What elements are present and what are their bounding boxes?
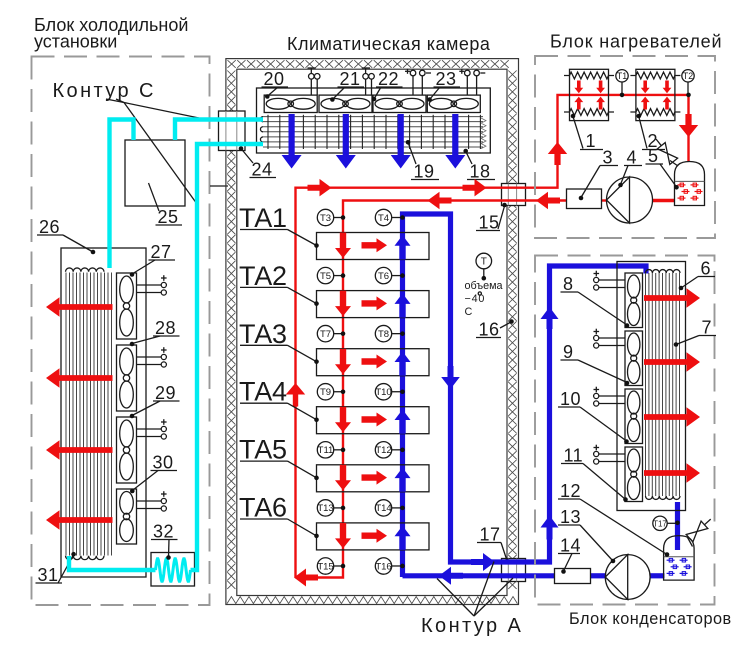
flow arrow right (blue to condenser) — [471, 553, 495, 571]
fan 23 (air handler fan section) — [427, 95, 480, 112]
fan 28 (evaporator fan) — [117, 345, 137, 411]
svg-text:16: 16 — [479, 320, 500, 340]
blue pipes of Contour A — [403, 214, 678, 577]
cold air-flow arrow (air handler outlet) — [282, 114, 302, 169]
terminals of fan group B — [362, 68, 375, 95]
flow arrow left (chamber bottom red) — [294, 569, 318, 587]
air-flow arrow (evaporator outlet) — [46, 368, 113, 388]
svg-text:Контур С: Контур С — [53, 80, 156, 102]
wire: tick between blocks — [210, 185, 228, 187]
svg-text:10: 10 — [560, 389, 581, 409]
label 16 — [476, 322, 512, 338]
label 17 — [477, 543, 507, 561]
label 3 — [581, 166, 618, 198]
pump 13 — [605, 555, 650, 600]
label 25 — [149, 183, 183, 225]
thermal block ТА3 box — [317, 349, 430, 376]
svg-text:25: 25 — [158, 207, 179, 227]
label 24 — [241, 149, 276, 178]
dashed enclosure: refrigeration unit block — [32, 57, 210, 606]
label 21 — [332, 87, 364, 100]
svg-text:Т: Т — [481, 257, 487, 268]
svg-text:Т1: Т1 — [617, 71, 627, 81]
svg-text:27: 27 — [151, 242, 172, 262]
arrow right in ТА5 — [362, 471, 388, 485]
label 18 — [466, 151, 495, 179]
expansion tank 5 — [675, 162, 705, 206]
svg-text:Т7: Т7 — [320, 329, 331, 340]
sensor Т4 — [375, 209, 391, 225]
svg-text:21: 21 — [340, 69, 361, 89]
arrow right in ТА3 — [362, 355, 388, 369]
svg-text:20: 20 — [264, 69, 285, 89]
svg-text:29: 29 — [155, 383, 176, 403]
label 2 — [639, 117, 665, 150]
label 14 — [558, 554, 580, 572]
sensor Т8 — [375, 325, 391, 341]
heat-exchange coil box 32 — [151, 553, 195, 587]
red pipes of heating circuit — [296, 95, 689, 578]
svg-text:Т17: Т17 — [653, 520, 667, 529]
svg-text:С: С — [465, 306, 473, 318]
label 32 — [151, 540, 178, 558]
label 11 — [561, 464, 625, 500]
terminals of fan 9 — [594, 329, 626, 348]
cold air-flow arrow (air handler outlet) — [391, 114, 411, 169]
svg-text:Т14: Т14 — [375, 503, 391, 514]
evaporator 26 fin pack — [66, 273, 112, 556]
arrow right in ТА2 — [362, 296, 388, 310]
label 7 — [676, 336, 716, 345]
flow arrow up (heater riser) — [548, 142, 567, 165]
terminals of fan 28 — [137, 347, 167, 367]
svg-text:19: 19 — [414, 162, 435, 182]
safety valve (tank 5) — [657, 143, 677, 165]
label 8 — [561, 292, 628, 325]
arrow up in ТА6 — [395, 526, 411, 550]
air-flow arrow (condenser outlet) — [644, 463, 700, 483]
flow arrow up (condenser riser 2) — [541, 516, 559, 540]
label 31 — [36, 555, 74, 584]
sensor Т15 — [317, 558, 333, 574]
svg-text:Т15: Т15 — [317, 561, 333, 572]
chamber left wall hatch — [227, 71, 235, 589]
evaporator coil top loops — [66, 268, 104, 272]
flow arrow down (outer blue drop) — [441, 366, 460, 389]
svg-text:22: 22 — [378, 69, 399, 89]
volume temperature sensor — [476, 253, 492, 269]
svg-text:17: 17 — [480, 525, 501, 545]
arrow right in ТА4 — [362, 413, 388, 427]
filter 14 — [555, 569, 591, 584]
sensor Т7 — [317, 325, 333, 341]
fan 30 (evaporator fan) — [117, 489, 137, 544]
sensor Т17 — [653, 516, 667, 530]
label 23 — [430, 87, 460, 100]
arrow down in ТА5 — [335, 465, 351, 491]
fan 10 (condenser fan) — [625, 389, 643, 444]
sensor Т11 — [317, 442, 333, 458]
svg-text:объема: объема — [465, 280, 503, 292]
heat-flow arrows of heater 2 — [641, 81, 650, 94]
svg-text:ТА1: ТА1 — [239, 203, 287, 233]
svg-text:9: 9 — [563, 342, 574, 362]
climatic chamber wall outline — [226, 59, 519, 605]
safety valve link (tank 5) — [670, 161, 678, 167]
svg-text:3: 3 — [603, 148, 614, 168]
heat-flow arrows of heater 1 — [574, 81, 583, 94]
dashed enclosure: condenser block — [535, 256, 715, 605]
coil 19 right-edge fin ends — [481, 118, 486, 149]
condenser coil top loops — [646, 270, 681, 273]
fan 27 (evaporator fan) — [117, 273, 137, 339]
evaporator coil bottom loops — [66, 556, 104, 560]
coil 32 winding (cyan) — [156, 559, 191, 582]
fan 20 (air handler fan section) — [264, 95, 317, 112]
svg-text:Т9: Т9 — [320, 387, 331, 398]
air-flow arrow (condenser outlet) — [644, 352, 700, 372]
svg-text:14: 14 — [560, 536, 581, 556]
air handler housing 18 — [257, 88, 491, 153]
svg-text:ТА2: ТА2 — [239, 261, 287, 291]
condenser coil bottom loops — [646, 496, 681, 499]
svg-text:Контур А: Контур А — [421, 615, 523, 637]
svg-text:Т11: Т11 — [318, 445, 334, 456]
svg-text:Климатическая камера: Климатическая камера — [287, 34, 491, 54]
arrow up in ТА5 — [395, 468, 411, 492]
svg-text:ТА5: ТА5 — [239, 435, 287, 465]
label 5 — [646, 164, 677, 187]
svg-text:Т12: Т12 — [375, 445, 391, 456]
label 26 — [37, 235, 93, 252]
condenser fin pack — [646, 273, 680, 496]
sensor Т13 — [317, 500, 333, 516]
svg-text:Т5: Т5 — [320, 271, 331, 282]
arrow up in ТА2 — [395, 293, 411, 317]
pump 4 — [607, 177, 653, 223]
label 4 — [621, 166, 643, 185]
arrow down in ТА4 — [335, 407, 351, 433]
svg-text:23: 23 — [436, 69, 457, 89]
svg-text:ТА6: ТА6 — [239, 493, 287, 523]
chamber bottom wall hatch — [227, 597, 517, 604]
label 22 — [374, 87, 403, 99]
dashed enclosure: heater block — [535, 56, 715, 238]
sensor Т16 — [375, 558, 391, 574]
terminals of fan group D — [459, 69, 485, 95]
svg-text:Т2: Т2 — [683, 71, 693, 81]
compressor unit 25 — [125, 140, 185, 206]
cold air-flow arrow (air handler outlet) — [336, 114, 356, 169]
label 29 — [132, 401, 180, 416]
svg-text:Т10: Т10 — [375, 387, 391, 398]
label 1 — [573, 117, 603, 150]
label 12 — [558, 499, 667, 555]
flow arrow left (blue supply into chamber) — [439, 567, 463, 585]
flow arrow up (condenser riser 1) — [541, 307, 559, 329]
chamber top wall hatch — [228, 60, 509, 68]
svg-text:30: 30 — [153, 453, 174, 473]
label 27 — [132, 260, 175, 274]
terminals of fan 10 — [594, 387, 626, 406]
filter 3 — [567, 189, 602, 209]
sensor Т14 — [375, 500, 391, 516]
sensor Т3 — [317, 209, 333, 225]
leader lines for Контур С — [106, 99, 199, 204]
fan 21 (air handler fan section) — [319, 95, 372, 112]
svg-text:32: 32 — [153, 522, 174, 542]
wall heat-exchanger 24 — [219, 111, 246, 151]
svg-text:6: 6 — [701, 259, 712, 279]
svg-text:ТА4: ТА4 — [239, 377, 287, 407]
sensor Т1 — [616, 70, 628, 82]
svg-text:Т6: Т6 — [378, 271, 389, 282]
terminals of fan 27 — [137, 275, 167, 295]
label 10 — [558, 407, 627, 441]
terminals of fan 11 — [594, 445, 626, 464]
arrow right in ТА1 — [362, 238, 388, 252]
arrow up in ТА4 — [395, 410, 411, 434]
svg-text:28: 28 — [155, 318, 176, 338]
arrow right in ТА6 — [362, 529, 388, 543]
cooling coil 19 fin pack — [263, 117, 483, 147]
label 6 — [681, 277, 715, 289]
terminals of fan group C — [405, 69, 431, 95]
fan 11 (condenser fan) — [625, 447, 643, 502]
label 9 — [561, 360, 628, 383]
arrow up in ТА3 — [395, 352, 411, 376]
sensor Т10 — [375, 384, 391, 400]
svg-text:Т13: Т13 — [317, 503, 333, 514]
cold air-flow arrow (air handler outlet) — [445, 114, 465, 169]
flow arrow left (supply pipe, chamber) — [428, 192, 452, 209]
air-flow arrow (condenser outlet) — [644, 407, 700, 427]
terminals of fan 8 — [594, 271, 626, 290]
fan 22 (air handler fan section) — [373, 95, 426, 112]
svg-text:ТА3: ТА3 — [239, 319, 287, 349]
fan 29 (evaporator fan) — [117, 417, 137, 483]
arrow down in ТА2 — [335, 291, 351, 317]
safety valve (tank 12) — [686, 521, 708, 542]
thermal block ТА4 box — [317, 407, 430, 434]
air-flow arrow (evaporator outlet) — [46, 440, 113, 460]
svg-text:11: 11 — [564, 446, 584, 466]
heater 2 housing — [636, 69, 675, 120]
thermal block ТА6 box — [317, 523, 430, 550]
sensor Т9 — [317, 384, 333, 400]
pipes of Contour C (cyan) — [69, 120, 263, 571]
sensor Т6 — [375, 267, 391, 283]
thermal block ТА2 box — [317, 291, 430, 318]
svg-text:18: 18 — [470, 162, 491, 182]
safety valve link (tank 12) — [687, 537, 693, 547]
svg-text:13: 13 — [560, 507, 581, 527]
flow arrow down (to tank 5) — [679, 114, 698, 137]
air-flow arrow (evaporator outlet) — [46, 510, 113, 530]
label 20 — [262, 87, 289, 96]
arrow down in ТА1 — [335, 233, 351, 259]
svg-text:Т3: Т3 — [320, 213, 331, 224]
svg-text:26: 26 — [39, 217, 60, 237]
heater 1 housing — [570, 69, 609, 120]
thermal block ТА5 box — [317, 465, 430, 492]
label 15 — [476, 206, 505, 231]
label 13 — [558, 525, 613, 561]
svg-text:Т4: Т4 — [378, 213, 389, 224]
svg-text:12: 12 — [560, 481, 581, 501]
svg-text:31: 31 — [38, 565, 59, 585]
svg-text:1: 1 — [586, 131, 597, 151]
label 28 — [132, 336, 180, 344]
sensor Т2 — [682, 70, 694, 82]
flow arrow right (return pipe) — [308, 179, 332, 197]
flow arrow right (return pipe 2) — [463, 179, 487, 197]
svg-text:8: 8 — [563, 274, 574, 294]
svg-text:24: 24 — [252, 160, 273, 180]
svg-text:Т8: Т8 — [378, 329, 389, 340]
svg-text:−40: −40 — [465, 293, 486, 305]
svg-text:Блок конденсаторов: Блок конденсаторов — [569, 610, 732, 628]
air-flow arrow (evaporator outlet) — [46, 297, 113, 317]
svg-text:4: 4 — [627, 148, 638, 168]
receiver tank 12 — [664, 536, 695, 581]
fan 9 (condenser fan) — [625, 331, 643, 386]
svg-text:Блок нагревателей: Блок нагревателей — [550, 32, 722, 52]
arrow down in ТА6 — [335, 523, 351, 549]
terminals of fan 20/21 group A — [308, 68, 321, 95]
sensor Т5 — [317, 267, 333, 283]
fan 8 (condenser fan) — [625, 273, 643, 328]
wall penetration 15 — [502, 184, 526, 206]
arrow up in ТА1 — [395, 235, 411, 259]
svg-text:Т16: Т16 — [375, 561, 391, 572]
flow arrow up (chamber red riser) — [286, 383, 305, 407]
svg-text:15: 15 — [479, 213, 500, 233]
svg-text:установки: установки — [34, 32, 117, 52]
flow arrow left (supply pipe, heater block) — [536, 192, 560, 209]
arrow down in ТА3 — [335, 349, 351, 375]
thermal block ТА1 box — [317, 233, 430, 260]
svg-text:7: 7 — [702, 318, 713, 338]
evaporator housing 26 — [61, 248, 146, 577]
wall penetration 17 — [502, 559, 526, 582]
condenser housing — [617, 262, 686, 511]
chamber right wall hatch — [508, 71, 516, 589]
terminals of fan 30 — [137, 491, 167, 511]
label 19 — [408, 142, 439, 179]
sensor Т12 — [375, 442, 391, 458]
air-flow arrow (condenser outlet) — [644, 288, 700, 308]
label 30 — [132, 471, 177, 491]
terminals of fan 29 — [137, 419, 167, 439]
